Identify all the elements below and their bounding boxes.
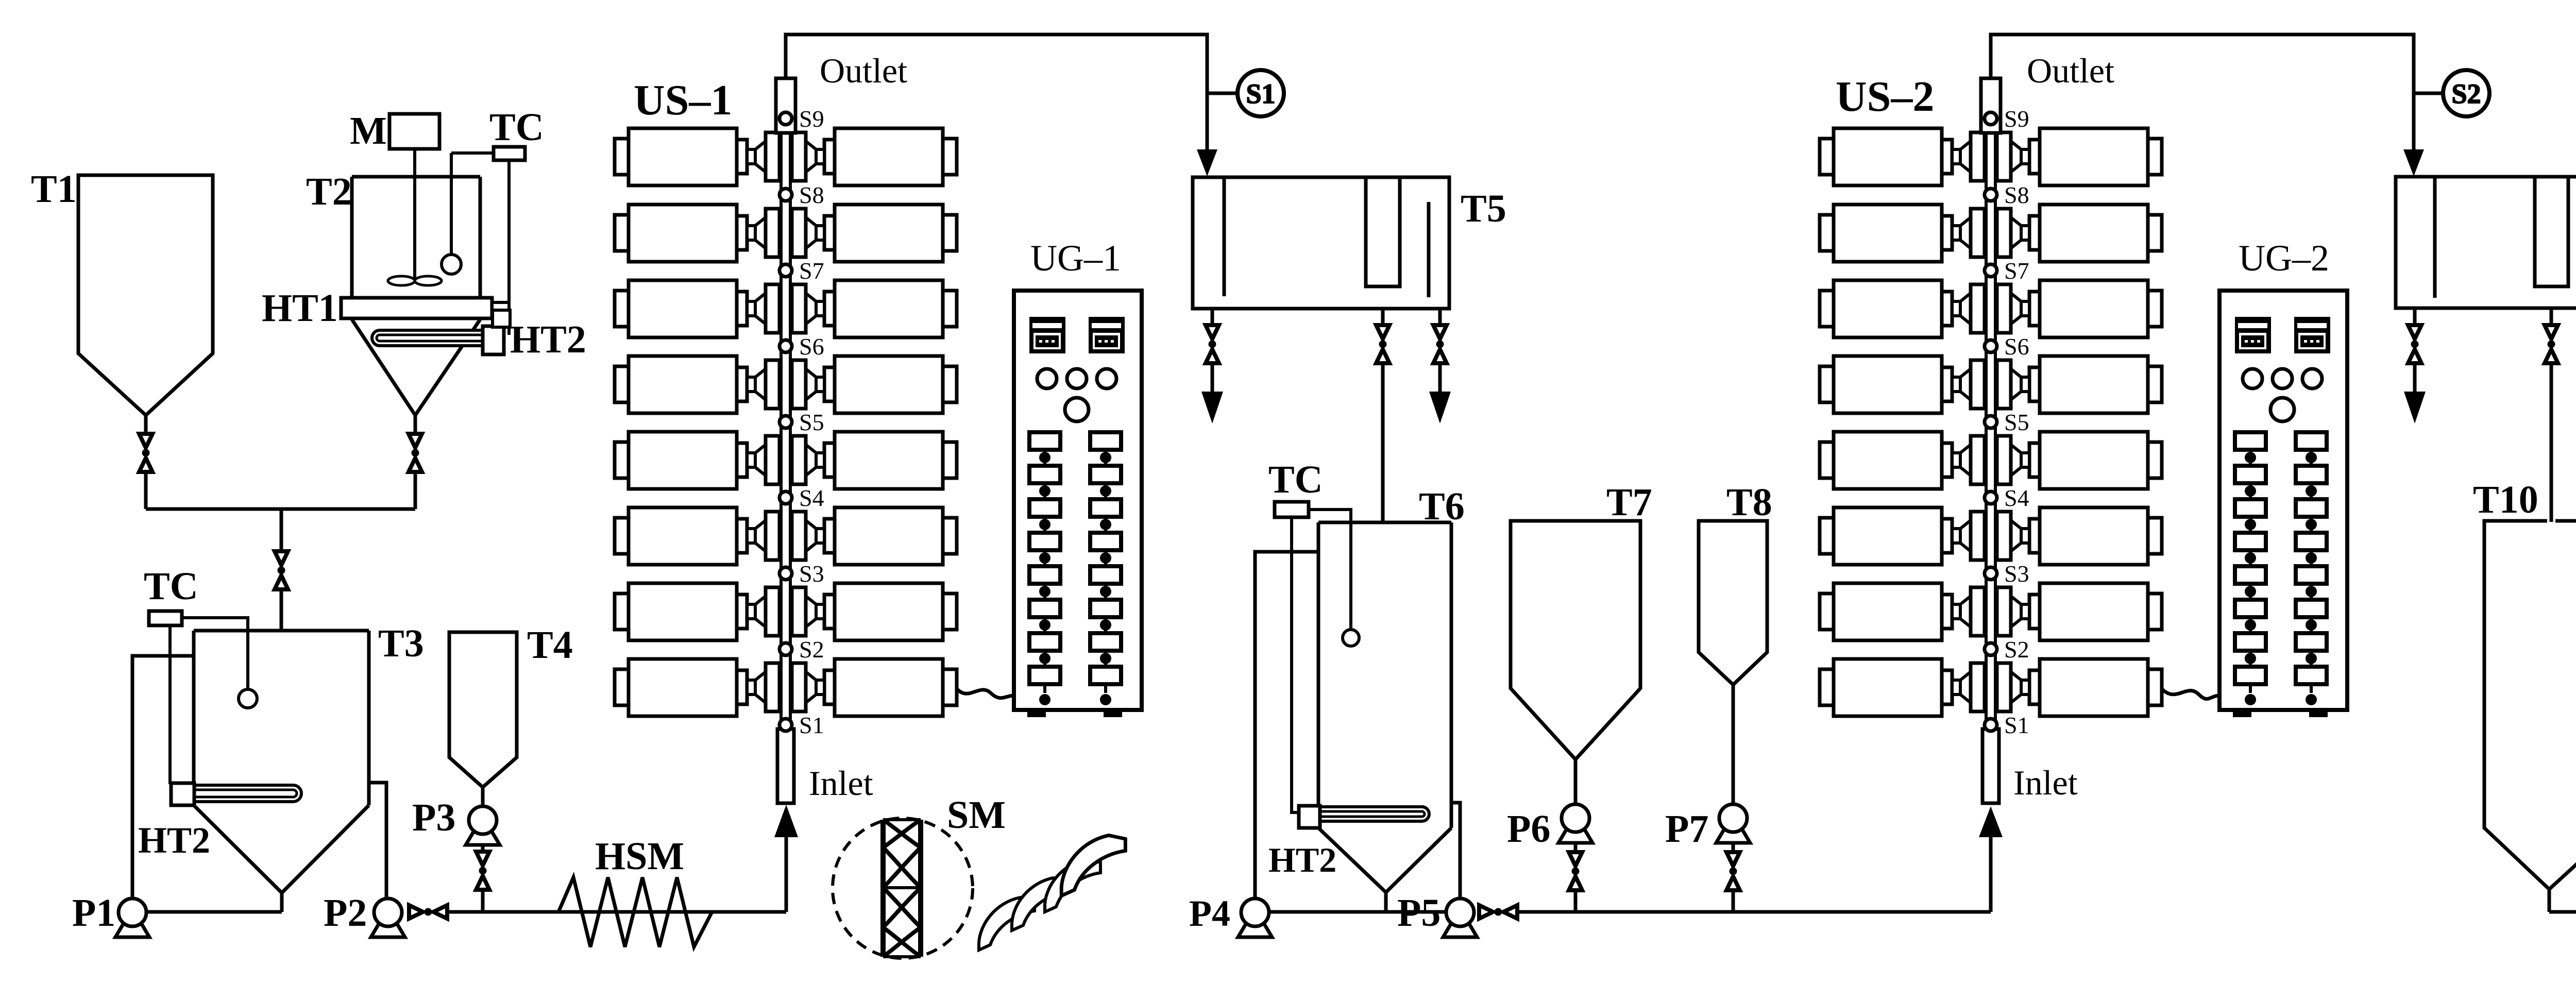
svg-text:S4: S4 (799, 485, 824, 511)
svg-text:S4: S4 (2004, 485, 2029, 511)
svg-text:S6: S6 (799, 333, 824, 360)
svg-text:P3: P3 (412, 796, 455, 839)
svg-text:S2: S2 (2004, 636, 2029, 663)
svg-text:P6: P6 (1507, 807, 1550, 851)
svg-text:Outlet: Outlet (820, 51, 907, 90)
svg-text:UG–1: UG–1 (1030, 238, 1121, 279)
svg-text:S8: S8 (799, 182, 824, 208)
svg-text:P1: P1 (72, 891, 115, 935)
svg-text:UG–2: UG–2 (2239, 238, 2329, 279)
svg-text:M: M (350, 109, 387, 152)
svg-text:S5: S5 (2004, 409, 2029, 435)
svg-text:HT2: HT2 (1268, 840, 1336, 879)
svg-text:S6: S6 (2004, 333, 2029, 360)
svg-text:P5: P5 (1397, 891, 1440, 935)
svg-text:S2: S2 (799, 636, 824, 663)
svg-text:Outlet: Outlet (2027, 51, 2114, 90)
svg-text:P4: P4 (1189, 893, 1230, 934)
svg-text:S8: S8 (2004, 182, 2029, 208)
svg-text:T6: T6 (1419, 485, 1465, 528)
svg-text:S5: S5 (799, 409, 824, 435)
svg-text:TC: TC (489, 106, 544, 149)
svg-text:US–1: US–1 (634, 76, 732, 124)
svg-text:S3: S3 (2004, 561, 2029, 587)
svg-text:T5: T5 (1461, 187, 1506, 230)
svg-text:S1: S1 (1246, 78, 1275, 109)
svg-text:T2: T2 (306, 170, 352, 213)
svg-text:US–2: US–2 (1836, 73, 1934, 121)
svg-text:TC: TC (1268, 458, 1323, 501)
svg-text:T3: T3 (378, 622, 424, 665)
svg-text:T1: T1 (31, 167, 77, 211)
svg-text:P2: P2 (324, 891, 367, 935)
svg-text:HSM: HSM (595, 835, 684, 878)
svg-text:S1: S1 (799, 712, 824, 738)
svg-text:SM: SM (947, 793, 1006, 837)
svg-text:HT2: HT2 (138, 820, 210, 861)
svg-text:S7: S7 (2004, 258, 2029, 284)
svg-text:S7: S7 (799, 258, 824, 284)
svg-text:P7: P7 (1665, 807, 1708, 851)
svg-text:S3: S3 (799, 561, 824, 587)
svg-text:HT2: HT2 (510, 318, 586, 361)
svg-text:S9: S9 (799, 106, 824, 132)
svg-text:S2: S2 (2451, 78, 2481, 109)
svg-text:T7: T7 (1606, 481, 1652, 524)
svg-text:S9: S9 (2004, 106, 2029, 132)
svg-text:Inlet: Inlet (809, 764, 873, 803)
svg-text:TC: TC (144, 565, 198, 608)
svg-text:Inlet: Inlet (2013, 763, 2078, 802)
svg-text:T8: T8 (1726, 481, 1772, 524)
svg-text:T4: T4 (527, 623, 573, 667)
svg-text:HT1: HT1 (262, 286, 338, 330)
svg-text:S1: S1 (2004, 712, 2029, 738)
svg-text:T10: T10 (2473, 478, 2538, 521)
